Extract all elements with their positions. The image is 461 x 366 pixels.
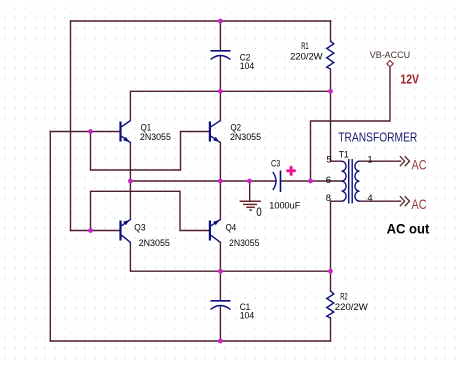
svg-text:AC out: AC out xyxy=(387,222,430,238)
svg-text:T1: T1 xyxy=(339,150,349,161)
svg-text:1: 1 xyxy=(367,155,372,166)
svg-text:Q3: Q3 xyxy=(134,223,145,234)
svg-text:104: 104 xyxy=(240,61,255,72)
svg-text:104: 104 xyxy=(240,311,255,322)
svg-text:C3: C3 xyxy=(271,158,280,169)
svg-text:12V: 12V xyxy=(400,71,419,86)
svg-text:5: 5 xyxy=(326,155,331,166)
svg-text:2N3055: 2N3055 xyxy=(230,132,261,143)
svg-text:6: 6 xyxy=(326,175,331,186)
svg-text:1000uF: 1000uF xyxy=(269,201,300,212)
svg-text:AC: AC xyxy=(412,157,427,172)
svg-text:2N3055: 2N3055 xyxy=(140,132,171,143)
svg-text:4: 4 xyxy=(367,193,372,204)
svg-text:220/2W: 220/2W xyxy=(335,302,368,313)
svg-text:AC: AC xyxy=(412,197,427,212)
svg-text:R1: R1 xyxy=(301,41,308,52)
svg-text:Q4: Q4 xyxy=(226,222,237,233)
svg-text:0: 0 xyxy=(256,205,262,219)
svg-text:TRANSFORMER: TRANSFORMER xyxy=(338,130,417,145)
svg-text:2N3055: 2N3055 xyxy=(139,238,170,249)
svg-text:8: 8 xyxy=(326,193,331,204)
svg-text:220/2W: 220/2W xyxy=(290,52,323,63)
svg-text:2N3055: 2N3055 xyxy=(229,238,259,249)
svg-text:VB-ACCU: VB-ACCU xyxy=(370,50,411,60)
